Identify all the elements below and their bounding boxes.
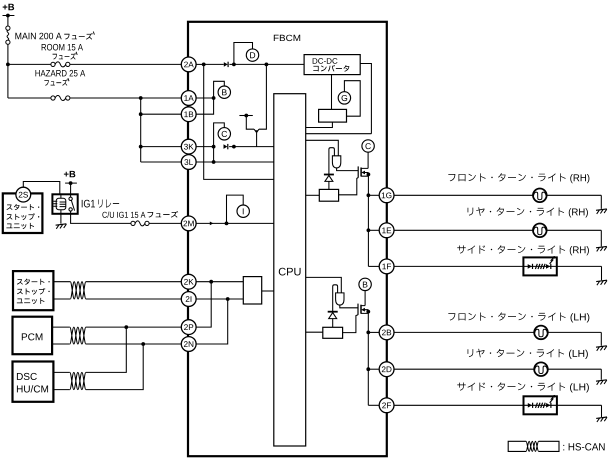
wire stub to I (227, 195, 244, 223)
transistor Q1 MOSFET (358, 166, 368, 177)
ground rear turn LH (596, 380, 607, 385)
terminal 2A (181, 57, 196, 72)
node C label 2 (362, 140, 374, 152)
wire relay coil to ground (60, 214, 62, 224)
wire DSC CAN-H (53, 371, 69, 373)
wire Q3 out to 3K net (256, 133, 258, 147)
junction node hazard bus (139, 96, 143, 100)
junction 1E (367, 228, 371, 232)
wire 2A internal (196, 63, 204, 65)
box FBCM (188, 22, 387, 456)
wire relay switch to fuse (71, 214, 131, 224)
lamp front turn LH (534, 326, 548, 340)
wire CPU to R2 (306, 331, 323, 333)
wire driver 2 to gate (340, 305, 358, 308)
relay IG1 switch (69, 194, 75, 214)
junction (139, 112, 143, 116)
gate driver 1 (332, 156, 340, 168)
junction 2D (366, 367, 370, 371)
wire DC-DC bottom (331, 75, 333, 110)
wire to 3K (141, 146, 182, 148)
wire to 2M (149, 222, 181, 224)
label rear turn light RH (468, 207, 565, 216)
terminal 1B (181, 107, 196, 122)
junction (212, 160, 216, 164)
label HS-CAN (563, 443, 604, 450)
label MAIN 200 A fuse (15, 33, 61, 40)
LED box side turn RH (523, 257, 556, 275)
relay IG1 box (52, 194, 77, 214)
terminal 2F (379, 398, 394, 413)
wire Q2 drain to B (364, 290, 366, 305)
wire to 2F (368, 404, 379, 406)
junction (232, 145, 236, 149)
wire driver 1 to gate (337, 168, 359, 171)
box PCM (13, 317, 53, 355)
junction (265, 63, 269, 67)
box CPU (274, 94, 306, 446)
ground front turn RH (596, 209, 607, 214)
terminal 2K (181, 274, 196, 289)
wire CPU to driver 2 (306, 277, 342, 293)
junction Q2 source-body (366, 310, 370, 314)
wire to 1G (368, 194, 379, 196)
wire 2N (86, 343, 181, 345)
wire rear turn LH (394, 368, 534, 370)
terminal 2S (16, 187, 31, 202)
wire (204, 63, 224, 65)
wire (7, 44, 9, 64)
wire hook zener to driver 2 (333, 285, 338, 311)
junction CAN-H (124, 325, 128, 329)
twisted pair HS-CAN PCM (70, 327, 86, 344)
terminal 2P (181, 320, 196, 335)
junction Q3 stub (244, 114, 248, 118)
terminal 2M (181, 216, 196, 231)
wire 2I internal (196, 298, 243, 300)
wire CAN to CPU (262, 290, 274, 292)
diode D2 on 3K (224, 144, 228, 149)
wire Q2 source bus (367, 310, 369, 406)
LED box side turn LH (524, 396, 557, 414)
twisted pair HS-CAN DSC (70, 372, 86, 389)
wire ROOM feed (8, 63, 51, 65)
wire 1F to LED (394, 265, 523, 267)
wire front turn RH (394, 194, 533, 196)
terminal 3L (181, 155, 196, 170)
wire 1B to node B (196, 98, 214, 114)
label front turn light RH (448, 173, 565, 181)
wire 3L to CPU (196, 161, 274, 163)
wire 2N to 2I (196, 299, 228, 344)
fuse MAIN 200A (6, 26, 10, 44)
fuse HAZARD 25A (51, 96, 70, 101)
zener diode Z2 (328, 312, 338, 328)
junction (202, 63, 206, 67)
wire 2S to relay coil (23, 182, 60, 195)
wire 2P (86, 326, 181, 328)
junction (6, 63, 10, 67)
wire (70, 183, 72, 194)
terminal 2B (379, 325, 394, 340)
junction +B 2 (69, 181, 73, 185)
wire 2I (86, 298, 181, 300)
junction node B (212, 96, 216, 100)
junction (232, 63, 236, 67)
wire stub to B (214, 81, 225, 98)
label DC-DC (313, 58, 338, 64)
wire +B tick 2 (65, 182, 77, 184)
wire CPU supply line (306, 133, 372, 135)
node B label 2 (359, 278, 371, 290)
diode D1 on 2A (224, 62, 228, 67)
wire 2A to DC-DC (234, 63, 304, 65)
label front turn light LH (448, 312, 565, 320)
junction +B (6, 14, 10, 18)
transistor Q3 (254, 129, 259, 132)
box DSC HU/CM (13, 362, 54, 402)
wire 3K to CPU (229, 146, 274, 148)
label start-stop unit 2 (17, 279, 50, 285)
relay IG1 coil (53, 194, 66, 214)
terminal 1E (379, 223, 394, 238)
legend twist (526, 441, 539, 451)
wire node C to 3L (213, 147, 215, 162)
wire front turn LH (394, 331, 534, 333)
wire Q1 source bus (367, 173, 369, 267)
junction node I (225, 222, 229, 226)
diode arrow on 2M (210, 222, 214, 226)
wire hook zener to driver 1 (329, 148, 335, 175)
label HAZARD 25 A fuse (35, 70, 85, 77)
wire 2P (52, 326, 70, 328)
node D (246, 49, 258, 61)
box CAN transceiver U2 (243, 277, 261, 304)
wire R1 to gate Q1 (339, 178, 359, 195)
junction CAN-L internal (226, 297, 230, 301)
gate driver 2 (336, 293, 344, 305)
junction (139, 145, 143, 149)
wire +B tick (3, 15, 15, 17)
wire to 1F (368, 265, 379, 267)
node +B battery (3, 4, 14, 10)
wire DSC CAN-L to junction (86, 344, 143, 390)
node B label (218, 86, 230, 98)
zener diode Z1 (324, 175, 334, 190)
wire to 2B (368, 331, 379, 333)
wire hazard bus (140, 98, 142, 162)
box start-stop unit 2 (13, 271, 53, 310)
wire 2K (53, 281, 70, 283)
terminal 1G (379, 188, 394, 203)
wire R2 to gate Q2 (343, 315, 358, 333)
node C label (218, 128, 230, 140)
wire to 2D (368, 368, 379, 370)
box charge pump (319, 109, 347, 122)
wire to 2A (70, 63, 181, 65)
node G label (338, 92, 350, 104)
node I label (237, 205, 249, 217)
wire 2N (52, 343, 70, 345)
terminal 1F (379, 259, 394, 274)
wire charge pump to CPU (306, 122, 333, 127)
wire 1A internal (196, 97, 214, 99)
label rear turn light LH (468, 349, 565, 358)
legend HS-CAN twisted pair (508, 441, 559, 451)
label side turn light RH (457, 245, 565, 253)
wire (7, 16, 9, 27)
wire to 1E (368, 229, 379, 231)
label CPU (279, 268, 301, 276)
wire stub to G (344, 81, 360, 117)
wire Q3 left (246, 116, 254, 130)
label start-stop unit 1 line1 (7, 204, 40, 210)
wire CPU to driver 1 (306, 140, 339, 156)
wire (7, 64, 9, 98)
wire DSC CAN-L (53, 389, 69, 391)
lamp rear turn LH (534, 362, 548, 376)
transistor Q2 MOSFET (358, 304, 368, 315)
lamp front turn RH (533, 189, 547, 203)
terminal 2I (181, 292, 196, 307)
junction node C (212, 145, 216, 149)
terminal 1A (181, 91, 196, 106)
resistor R1 (319, 189, 338, 201)
wire to 1B (141, 113, 182, 115)
ground front turn LH (596, 346, 607, 351)
wire 2M to CPU (196, 222, 274, 224)
wire 2I (53, 298, 70, 300)
wire 2A to Q3 right (259, 64, 267, 129)
wire Q3 stub (239, 115, 252, 117)
wire 2A branch to CPU (204, 64, 274, 179)
wire 2F to LED (394, 404, 524, 406)
wire rear turn RH (394, 229, 533, 231)
wire HAZARD feed (8, 97, 51, 99)
ground relay coil (56, 224, 67, 229)
wire DSC CAN-H to junction (86, 327, 126, 372)
wire 2K (86, 281, 181, 283)
junction CAN-L (141, 342, 145, 346)
label IG1 relay (82, 200, 95, 208)
wire 2K internal (196, 281, 243, 283)
junction Q1 source-body (367, 173, 371, 177)
terminal 2D (379, 362, 394, 377)
wire DC-DC right (360, 64, 371, 134)
lamp rear turn RH (533, 224, 547, 238)
ground side LH (596, 417, 607, 422)
wire 3K internal (196, 146, 214, 148)
terminal 2N (181, 337, 196, 352)
junction 2B (366, 331, 370, 335)
twisted pair HS-CAN start-stop (70, 282, 86, 299)
terminal 3K (181, 139, 196, 154)
wire stub to C (214, 123, 225, 147)
wire 2P to 2K (196, 282, 211, 327)
wire (229, 63, 234, 65)
fuse ROOM 15A (51, 62, 70, 67)
wire to 3L (141, 161, 182, 163)
fuse C/U IG1 15A (131, 221, 149, 226)
label DSC (17, 373, 37, 380)
label ROOM 15 A fuse (42, 44, 83, 51)
label side turn light LH (457, 382, 565, 390)
box start-stop unit 1 (3, 193, 43, 233)
wire to 1A (70, 97, 181, 99)
junction CAN-H internal (209, 280, 213, 284)
resistor R2 (323, 327, 343, 338)
junction 1G (367, 193, 371, 197)
ground rear turn RH (596, 246, 607, 251)
wire CPU to R1 (306, 194, 320, 196)
ground side RH (596, 280, 607, 285)
label FBCM (274, 35, 300, 41)
wire stub to D (234, 43, 253, 65)
node +B relay (64, 171, 75, 177)
box DC-DC converter (304, 55, 360, 75)
label C/U IG1 15 A fuse (102, 211, 145, 217)
label PCM (22, 333, 43, 340)
wire Q1 drain to C (367, 152, 369, 169)
